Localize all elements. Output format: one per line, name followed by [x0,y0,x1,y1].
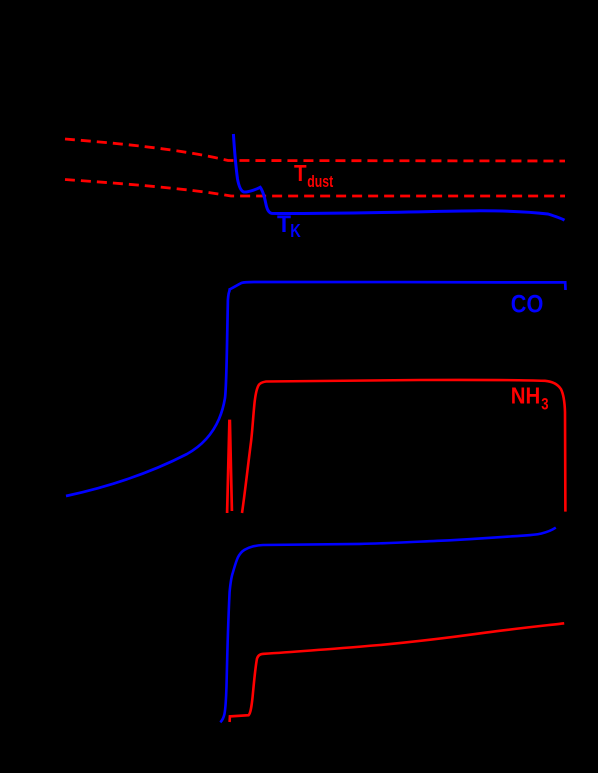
NH3 abundance curve (middle panel, red) [242,380,565,513]
svg-text:T: T [277,211,291,238]
svg-text:3: 3 [541,394,548,413]
svg-text:T: T [294,160,307,186]
T_dust upper dashed curve (top panel) [65,139,565,161]
svg-text:CO: CO [511,290,544,318]
svg-text:K: K [290,221,301,241]
T_K gas temperature curve (top panel, blue) [233,134,564,220]
CO abundance curve (middle panel, blue) [66,282,566,496]
CO column/line curve (bottom panel, blue) [220,528,556,723]
svg-text:NH: NH [511,382,541,408]
NH3 column/line curve (bottom panel, red) [230,623,565,722]
NH3 desorption spike (middle panel, red) [227,421,232,513]
T_dust lower dashed curve (top panel) [65,180,565,197]
svg-text:dust: dust [307,172,333,191]
